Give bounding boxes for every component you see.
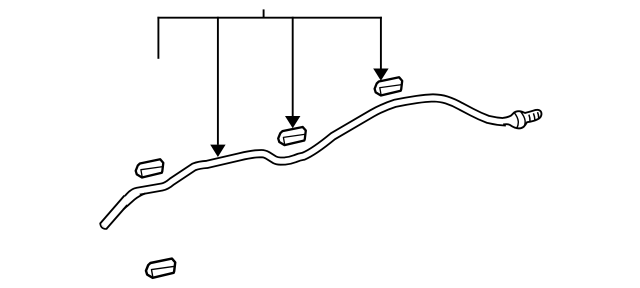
nut facet arc 2 xyxy=(520,111,525,127)
arrowhead 2 xyxy=(210,145,225,157)
thread ridge 3 xyxy=(538,112,539,118)
fuel pipe outer (black band) xyxy=(125,98,506,202)
leader line 1 (short stub) xyxy=(157,17,159,59)
pipe tip end cap xyxy=(100,223,106,229)
pipe inner-bend edge (tight corner) xyxy=(123,193,145,209)
leader line 2 xyxy=(217,17,219,145)
leader line 4 xyxy=(380,17,382,69)
clip 1 (upper right, on pipe) xyxy=(375,77,403,95)
arrowhead 4 xyxy=(373,69,388,81)
thread ridge 2 xyxy=(533,113,535,120)
arrowhead 3 xyxy=(285,116,300,128)
fuel pipe steep end segment inner (white core) xyxy=(103,198,127,226)
clip 2 (middle, on pipe) xyxy=(278,127,306,145)
flare nut and threaded stub at pipe end xyxy=(503,110,541,129)
fuel pipe steep end segment outer (black band) xyxy=(103,198,127,226)
thread ridge 1 xyxy=(529,115,530,122)
leader line 3 xyxy=(292,17,294,116)
pipe inner-bend edge rework (erase early-turning edge) xyxy=(127,194,140,205)
callout bracket horizontal line xyxy=(157,17,382,19)
clip 4 (loose, bottom) xyxy=(146,259,175,278)
callout top tick xyxy=(263,9,265,17)
clip 3 (left, on pipe) xyxy=(136,159,164,177)
fuel pipe inner (white core) xyxy=(125,98,506,202)
nut facet arc 1 xyxy=(514,112,518,128)
